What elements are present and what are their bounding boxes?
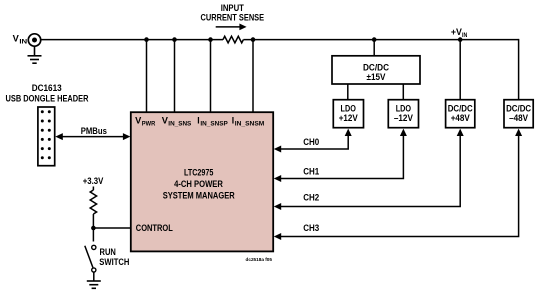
wire +3.3V to resistor — [92, 187, 94, 191]
IC U1 LTC2975 block — [131, 112, 273, 251]
svg-text:CH1: CH1 — [303, 167, 319, 177]
svg-text:DC/DC: DC/DC — [506, 103, 531, 113]
svg-text:V: V — [13, 34, 19, 44]
svg-text:RUN: RUN — [100, 247, 116, 257]
power block LDO -12V — [388, 100, 418, 128]
svg-text:CONTROL: CONTROL — [136, 223, 173, 233]
svg-text:CURRENT SENSE: CURRENT SENSE — [201, 13, 265, 23]
wire ±15V to LDO -12V — [402, 84, 404, 100]
junction IIN_SNSP tap — [208, 37, 213, 42]
svg-text:–12V: –12V — [394, 113, 413, 123]
wire junction to switch — [92, 228, 94, 242]
wire PMBus (bidirectional) — [55, 133, 130, 140]
svg-text:IN: IN — [19, 39, 27, 46]
wire to DC/DC ±15V — [373, 40, 375, 56]
svg-text:IN_SNSP: IN_SNSP — [200, 120, 228, 127]
svg-text:SYSTEM MANAGER: SYSTEM MANAGER — [163, 190, 235, 200]
resistor pull-up — [90, 190, 96, 214]
label +VIN — [451, 27, 468, 39]
power block LDO +12V — [333, 100, 363, 128]
svg-text:+12V: +12V — [339, 113, 358, 123]
svg-text:USB DONGLE HEADER: USB DONGLE HEADER — [6, 93, 89, 103]
svg-text:IN_SNS: IN_SNS — [168, 120, 192, 127]
svg-text:CH0: CH0 — [303, 137, 319, 147]
junction VIN_SNS tap — [172, 37, 177, 42]
svg-text:DC/DC: DC/DC — [448, 103, 473, 113]
label RUN SWITCH — [99, 247, 129, 267]
wire VIN_SNS — [174, 40, 176, 112]
wire main VIN rail (left of sense resistor) — [41, 39, 223, 41]
power block DC/DC -48V — [504, 100, 533, 128]
svg-text:LDO: LDO — [396, 103, 411, 113]
wire CH0 — [274, 129, 352, 153]
wire CH1 — [274, 129, 407, 182]
resistor input current sense — [223, 36, 243, 43]
wire VPWR — [146, 40, 148, 112]
wire resistor to junction — [92, 214, 94, 228]
wire IIN_SNSM — [252, 40, 254, 112]
svg-text:dc2518a f05: dc2518a f05 — [246, 257, 273, 263]
svg-text:LDO: LDO — [341, 103, 356, 113]
wire right drop to DC/DC -48V — [518, 39, 520, 100]
svg-text:PMBus: PMBus — [81, 126, 107, 136]
connector J1 DC1613 USB dongle header — [38, 107, 55, 166]
switch RUN (SPST) — [85, 245, 96, 272]
svg-text:PWR: PWR — [142, 120, 156, 127]
pin IIN_SNSM — [232, 115, 265, 127]
svg-text:+48V: +48V — [451, 113, 470, 123]
svg-text:LTC2975: LTC2975 — [184, 168, 213, 178]
ground (under switch) — [87, 281, 101, 288]
pin VPWR — [135, 115, 155, 127]
wire to DC/DC +48V — [459, 40, 461, 100]
svg-text:V: V — [162, 115, 168, 125]
svg-text:IN_SNSM: IN_SNSM — [235, 120, 265, 127]
wire CH2 — [274, 129, 464, 210]
power block DC/DC +48V — [446, 100, 475, 128]
svg-text:DC/DC: DC/DC — [363, 62, 389, 72]
label VIN — [13, 34, 28, 46]
pin VIN_SNS — [162, 115, 192, 127]
svg-text:SWITCH: SWITCH — [99, 257, 129, 267]
power block DC/DC ±15V — [332, 56, 420, 84]
junction +VIN / DC/DC +48V tap — [458, 37, 463, 42]
ground (under VIN connector) — [28, 46, 42, 63]
svg-text:CH3: CH3 — [303, 223, 319, 233]
svg-text:–48V: –48V — [509, 113, 528, 123]
wire CONTROL — [93, 227, 130, 229]
svg-text:±15V: ±15V — [367, 72, 386, 82]
wire CH3 — [274, 129, 522, 240]
svg-text:4-CH POWER: 4-CH POWER — [174, 179, 223, 189]
svg-text:DC1613: DC1613 — [32, 83, 62, 93]
junction DC/DC ±15V tap — [372, 37, 377, 42]
svg-text:CH2: CH2 — [303, 193, 319, 203]
svg-text:V: V — [135, 115, 141, 125]
pin IIN_SNSP — [197, 115, 228, 127]
svg-text:+V: +V — [451, 27, 462, 37]
wire ±15V to LDO +12V — [347, 84, 349, 100]
svg-text:I: I — [232, 115, 234, 125]
svg-text:I: I — [197, 115, 199, 125]
arrow current direction — [216, 24, 247, 31]
svg-text:IN: IN — [462, 32, 468, 39]
wire main VIN rail (right of sense resistor) — [243, 39, 518, 41]
junction IIN_SNSM tap — [251, 37, 256, 42]
wire IIN_SNSP — [210, 40, 212, 112]
svg-text:+3.3V: +3.3V — [83, 176, 104, 186]
junction CONTROL — [91, 226, 96, 231]
node VIN input connector — [28, 34, 40, 46]
svg-text:INPUT: INPUT — [221, 3, 245, 13]
wire switch to ground — [93, 272, 95, 281]
label INPUT CURRENT SENSE — [201, 3, 265, 23]
junction VPWR tap — [144, 37, 149, 42]
